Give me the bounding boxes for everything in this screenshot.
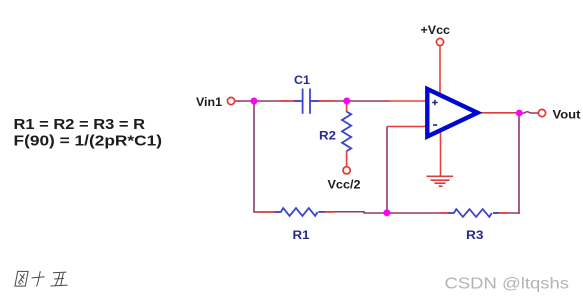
wire: op-amp to ground (440, 128, 442, 176)
wire: right vertical Vout to R3 (518, 113, 520, 214)
terminal Vin1 (227, 97, 240, 104)
wire: op-amp plus input red lead (388, 100, 427, 102)
svg-text:Vcc/2: Vcc/2 (328, 178, 361, 192)
wire: R1 to node C (inverting node) (319, 212, 387, 213)
node: formula text (14, 116, 163, 150)
wire: node C to R3 (387, 212, 454, 214)
glyph 图 (15, 271, 28, 286)
node: figure caption 图十五 (15, 271, 68, 286)
node A junction Vin1-top (251, 98, 258, 105)
glyph 五 (51, 272, 68, 286)
svg-text:Vout: Vout (553, 108, 581, 122)
wire: Vin1 net left vertical (253, 101, 255, 212)
svg-text:R1 = R2 = R3 = R: R1 = R2 = R3 = R (14, 116, 146, 133)
wire: +Vcc supply vertical (439, 46, 441, 97)
svg-text:R3: R3 (466, 228, 484, 242)
svg-text:R1: R1 (293, 228, 310, 242)
pin + (432, 100, 437, 105)
capacitor C1 red leads (280, 100, 334, 102)
svg-text:R2: R2 (319, 129, 336, 143)
wire: R3 to bottom right corner (493, 212, 520, 214)
wire: feedback vertical at node C (386, 127, 388, 214)
svg-text:CSDN @ltqshs: CSDN @ltqshs (445, 276, 570, 293)
wire: Vin1 net top horizontal (236, 100, 303, 102)
resistor R1 (260, 208, 334, 216)
svg-text:F(90) = 1/(2pR*C1): F(90) = 1/(2pR*C1) (14, 133, 163, 150)
svg-text:C1: C1 (294, 73, 310, 87)
wire: Vout node to terminal (519, 112, 538, 113)
wire: C1 right to node B (310, 100, 389, 102)
wire: output apex to Vout node (478, 112, 519, 114)
node B junction C1-R2 (343, 98, 350, 105)
terminal +Vcc (436, 38, 443, 45)
glyph 十 (32, 271, 45, 286)
svg-text:Vin1: Vin1 (196, 95, 222, 109)
pin - (433, 124, 437, 126)
resistor R2 (342, 101, 351, 167)
terminal Vcc/2 (343, 167, 350, 174)
svg-text:+Vcc: +Vcc (421, 23, 451, 37)
terminal Vout (538, 109, 545, 116)
node D junction output (516, 110, 523, 117)
op-amp U1 (427, 89, 477, 137)
ground (427, 176, 454, 186)
wire: bottom left horizontal to R1 (253, 211, 281, 213)
capacitor C1 (294, 89, 320, 114)
node C junction inverting (383, 209, 390, 216)
resistor R3 (441, 209, 508, 217)
wire: feedback horizontal to op-amp minus input (387, 126, 427, 128)
